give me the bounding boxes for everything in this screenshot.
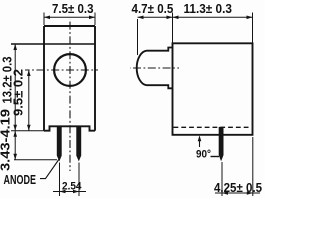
dim 7.5 extension lines bbox=[44, 13, 95, 26]
side view axis centerline bbox=[130, 67, 179, 69]
dim 2.54 arrows bbox=[60, 190, 80, 194]
side view body outline bbox=[173, 43, 253, 135]
svg-text:9.5± 0.2: 9.5± 0.2 bbox=[11, 69, 26, 116]
dim 2.54 extension lines bbox=[60, 163, 80, 197]
svg-text:90°: 90° bbox=[196, 149, 211, 161]
lens circle bbox=[54, 54, 86, 86]
LED dome bbox=[137, 51, 147, 85]
svg-text:4.7± 0.5: 4.7± 0.5 bbox=[132, 1, 174, 16]
side view snout top bbox=[147, 48, 173, 51]
dim 13.2 bottom extension bbox=[11, 130, 44, 132]
90 deg leader up arrow bbox=[199, 141, 201, 147]
svg-text:3.43-4.19: 3.43-4.19 bbox=[0, 109, 13, 171]
dim 13.2 arrows bbox=[13, 44, 17, 131]
svg-text:4.25± 0.5: 4.25± 0.5 bbox=[214, 180, 262, 195]
left lead (anode pin) bbox=[57, 126, 61, 160]
front view flange step line bbox=[11, 43, 95, 45]
front view housing outline bbox=[44, 26, 95, 131]
dim 7.5 line bbox=[44, 16, 95, 18]
svg-text:2.54: 2.54 bbox=[62, 181, 82, 193]
dim 4.7 / 11.3 line bbox=[138, 16, 253, 18]
svg-text:ANODE: ANODE bbox=[4, 173, 37, 187]
dim 7.5 arrows bbox=[44, 16, 95, 20]
dim 13.2 line bbox=[14, 44, 16, 131]
dim 4.25 line bbox=[215, 192, 260, 194]
svg-text:11.3± 0.3: 11.3± 0.3 bbox=[184, 1, 232, 16]
dim 4.25 arrows bbox=[222, 191, 253, 195]
dim 9.5 line bbox=[28, 70, 30, 131]
vertical centerline bbox=[69, 19, 71, 171]
pin tip extension line bbox=[14, 159, 57, 161]
dim 3.43-4.19 line bbox=[14, 131, 16, 160]
dim 3.43-4.19 arrows bbox=[13, 131, 17, 160]
right lead bbox=[77, 126, 81, 160]
dim 4.7 / 11.3 extension lines bbox=[138, 13, 253, 56]
dim 9.5 arrows bbox=[27, 70, 31, 131]
side view lead bbox=[219, 128, 223, 160]
svg-text:7.5± 0.3: 7.5± 0.3 bbox=[52, 1, 94, 16]
dim 4.25 extension lines bbox=[222, 137, 253, 196]
side view snout bottom bbox=[147, 85, 173, 88]
hidden bottom line (dashed) bbox=[174, 126, 252, 128]
anode leader line bbox=[40, 160, 59, 179]
horizontal centerline bbox=[25, 69, 98, 71]
90 deg leader to pin bbox=[211, 156, 220, 158]
top right dim arrows bbox=[138, 16, 253, 20]
dim 2.54 line bbox=[53, 191, 86, 193]
